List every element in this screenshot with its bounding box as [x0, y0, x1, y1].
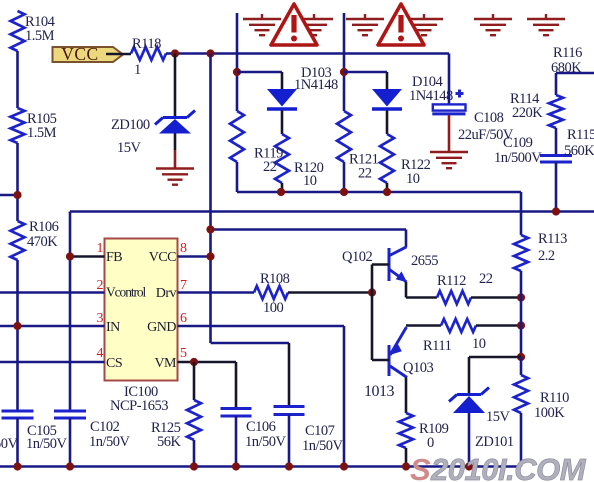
junction rail A R122: [383, 188, 391, 196]
junction branch2 top: [340, 68, 348, 76]
wire FB column: [69, 212, 72, 411]
wire C109 to rail B: [555, 162, 558, 212]
junction base rail: [368, 288, 376, 296]
wire base rail vertical: [371, 265, 374, 361]
junction ground rail C106: [232, 462, 240, 470]
svg-text:10: 10: [472, 336, 486, 352]
svg-text:22: 22: [479, 271, 493, 287]
svg-text:R110: R110: [540, 390, 569, 406]
resistor R122: [380, 134, 394, 183]
junction ground rail C105: [13, 462, 21, 470]
wire R113 bottom lead: [520, 271, 523, 298]
wire ZD100 cathode: [174, 54, 177, 118]
wire node chain: [520, 298, 523, 358]
junction collector rail at VCC column: [206, 225, 214, 233]
diode D104: [372, 89, 402, 109]
svg-text:2.2: 2.2: [538, 248, 555, 264]
wire D104 anode lead: [386, 72, 389, 89]
junction R111 node: [517, 321, 525, 329]
wire R111 left lead: [406, 324, 441, 327]
svg-text:1013: 1013: [364, 383, 395, 400]
wire rail A corner down: [520, 192, 523, 235]
svg-text:56K: 56K: [157, 434, 182, 450]
wire Q102 collector drop: [405, 230, 408, 248]
wire emitter to R112: [406, 296, 437, 299]
capacitor C102: [54, 411, 86, 418]
wire D103 anode lead: [281, 72, 284, 89]
wire C102 to ground rail: [69, 418, 72, 467]
wire D103 to R120: [281, 111, 284, 135]
wire C107 top lead: [288, 343, 291, 407]
resistor R112: [437, 291, 471, 304]
wire Q102 emitter drop: [405, 282, 408, 298]
zener diode ZD100: [155, 111, 195, 134]
svg-text:R116: R116: [553, 45, 582, 61]
capacitor C105: [2, 411, 34, 418]
svg-text:C102: C102: [90, 419, 120, 435]
junction rail A R120: [277, 188, 285, 196]
wire pin7 Drv lead: [178, 291, 255, 294]
wire ZD101 cathode: [468, 357, 471, 395]
svg-text:100K: 100K: [534, 405, 565, 421]
junction FB column: [66, 252, 74, 260]
junction ground rail R125: [190, 462, 198, 470]
ground symbol top 3: [346, 14, 384, 35]
wire VCC column to C107: [211, 342, 290, 345]
wire branch2 left top: [343, 13, 346, 111]
wire VCC rail corner down to C108: [448, 54, 451, 105]
junction left column: [13, 191, 21, 199]
capacitor C106: [221, 409, 252, 417]
svg-text:4: 4: [97, 346, 104, 361]
svg-text:1n/50V: 1n/50V: [89, 434, 131, 450]
wire bottom ground rail: [0, 465, 521, 468]
resistor R119: [230, 111, 244, 162]
wire pin5 VM lead: [178, 361, 237, 364]
junction IN at left column: [13, 322, 21, 330]
wire pin1 FB stub: [70, 255, 105, 258]
wire Q103 base stub: [372, 359, 389, 362]
svg-text:ZD101: ZD101: [475, 434, 514, 450]
svg-text:C109: C109: [503, 135, 533, 151]
ground symbol under C108: [430, 152, 468, 168]
svg-text:R115: R115: [567, 127, 594, 143]
capacitor C109: [540, 156, 572, 163]
wire GND drop: [343, 326, 346, 467]
svg-text:FB: FB: [106, 250, 122, 265]
wire node to ZD101: [469, 356, 521, 359]
junction ZD100 top: [171, 49, 179, 57]
svg-text:CS: CS: [106, 356, 122, 371]
wire R110 top lead: [520, 357, 523, 375]
wire branch1 top: [237, 71, 282, 74]
svg-text:1.5M: 1.5M: [27, 125, 57, 141]
junction branch1 top: [233, 68, 241, 76]
wire left column upper: [16, 51, 19, 108]
ground symbol top 6: [527, 14, 565, 35]
resistor R109: [399, 413, 413, 448]
ground symbol top 4: [405, 14, 443, 35]
svg-text:1N4148: 1N4148: [294, 77, 338, 93]
wire R116 feed: [556, 72, 594, 75]
wire R119 bottom lead: [236, 162, 239, 192]
resistor R104: [11, 11, 25, 51]
svg-text:R106: R106: [29, 219, 59, 235]
transistor Q102: [389, 247, 407, 282]
wire C105 to ground rail: [16, 418, 19, 467]
resistor R113: [514, 235, 528, 271]
junction ground rail GND drop: [340, 462, 348, 470]
junction ground rail C102: [66, 462, 74, 470]
wire R111 to node: [476, 324, 521, 327]
junction ZD101 node: [517, 353, 525, 361]
svg-text:VCC: VCC: [149, 250, 176, 265]
wire VCC rail top: [166, 52, 449, 55]
wire R122 bottom lead: [386, 183, 389, 192]
svg-text:VCC: VCC: [61, 44, 98, 64]
svg-text:IN: IN: [106, 320, 120, 335]
resistor R118: [131, 47, 166, 60]
transistor Q103: [389, 327, 407, 378]
svg-text:C108: C108: [474, 110, 504, 126]
resistor R121: [337, 111, 351, 162]
wire pin6 GND lead: [178, 325, 345, 328]
junction VCC column pin8: [206, 252, 214, 260]
capacitor C108 electrolytic: [432, 104, 465, 114]
wire pin2 Vcontrol net: [0, 291, 105, 294]
resistor R105: [11, 108, 25, 143]
svg-text:R109: R109: [419, 421, 449, 437]
svg-text:1: 1: [97, 241, 104, 256]
svg-text:R111: R111: [423, 338, 452, 354]
ground symbol top 5: [474, 14, 512, 35]
svg-text:3: 3: [97, 311, 104, 326]
svg-text:22: 22: [358, 166, 372, 182]
wire left column mid: [16, 143, 19, 221]
svg-text:C106: C106: [246, 419, 276, 435]
svg-text:10: 10: [303, 173, 317, 189]
wire rail A branch bottoms: [237, 191, 521, 194]
wire R120 bottom lead: [281, 183, 284, 192]
svg-text:Q102: Q102: [342, 249, 372, 265]
warning triangle 1: [271, 4, 317, 45]
wire R114 top lead: [555, 73, 558, 95]
junction VCC column top: [206, 49, 214, 57]
resistor R125: [187, 400, 201, 440]
plus sign of C108: [456, 90, 464, 98]
svg-text:470K: 470K: [27, 234, 58, 250]
ground symbol top 1: [243, 14, 281, 35]
svg-text:Q103: Q103: [403, 360, 433, 376]
zener diode ZD101: [449, 388, 489, 414]
svg-text:1n/50V: 1n/50V: [0, 436, 19, 452]
svg-text:1n/50V: 1n/50V: [26, 436, 68, 452]
junction R112 node: [517, 293, 525, 301]
svg-text:NCP-1653: NCP-1653: [110, 398, 168, 414]
svg-text:0: 0: [427, 435, 434, 451]
svg-text:1: 1: [134, 62, 141, 78]
wire R125 to ground rail: [193, 440, 196, 467]
wire pin4 CS net: [0, 361, 105, 364]
wire pin3 IN net: [0, 325, 105, 328]
svg-text:220K: 220K: [512, 105, 543, 121]
svg-text:100: 100: [263, 300, 284, 316]
junction VM R125: [190, 358, 198, 366]
svg-text:1.5M: 1.5M: [25, 28, 55, 44]
wire R112 to node: [471, 296, 521, 299]
svg-text:8: 8: [180, 241, 187, 256]
wire ZD100 anode to ground: [174, 150, 177, 169]
wire collector rail: [211, 228, 407, 231]
svg-text:VM: VM: [154, 356, 177, 371]
resistor R106: [11, 221, 25, 260]
svg-text:C107: C107: [305, 423, 335, 439]
resistor R111: [441, 319, 476, 332]
wire VCC column: [209, 54, 212, 344]
svg-text:Vcontrol: Vcontrol: [106, 285, 147, 300]
wire R114 to C109: [555, 128, 558, 156]
wire C106 top lead: [235, 362, 238, 409]
wire branch1 left top: [236, 13, 239, 111]
wire C106 to ground rail: [235, 416, 238, 467]
wire Q103 collector drop: [405, 378, 408, 414]
watermark logo: [410, 452, 587, 482]
junction ground rail C107: [285, 462, 293, 470]
svg-text:7: 7: [180, 278, 187, 293]
wire branch2 top: [344, 71, 387, 74]
svg-text:2010I.COM: 2010I.COM: [430, 452, 587, 482]
wire left column lower: [16, 260, 19, 411]
svg-text:22: 22: [263, 159, 277, 175]
svg-text:2: 2: [97, 278, 104, 293]
svg-text:R112: R112: [437, 273, 466, 289]
wire ZD101 anode to ground rail: [468, 413, 471, 467]
wire R110 to ground rail: [520, 413, 523, 467]
op-amp IC U1 IC100 NCP-1653 body: [105, 239, 178, 381]
wire Q102 base stub: [372, 263, 389, 266]
wire R121 bottom lead: [343, 162, 346, 192]
svg-text:Drv: Drv: [156, 286, 177, 301]
resistor R110: [514, 375, 528, 413]
capacitor C107: [274, 407, 305, 415]
junction rail A R121: [340, 188, 348, 196]
wire C107 to ground rail: [288, 415, 291, 467]
wire R125 top lead: [193, 362, 196, 400]
svg-text:5: 5: [180, 346, 187, 361]
ground symbol under ZD100: [156, 169, 194, 185]
svg-text:ZD100: ZD100: [111, 117, 150, 133]
warning triangle 2: [378, 4, 424, 45]
svg-text:560K: 560K: [564, 143, 594, 159]
svg-text:R113: R113: [538, 231, 567, 247]
svg-text:1n/50V: 1n/50V: [302, 438, 344, 454]
ground symbol top 2: [295, 14, 333, 35]
svg-text:2655: 2655: [411, 253, 438, 269]
svg-text:15V: 15V: [486, 409, 511, 425]
svg-text:R108: R108: [260, 271, 290, 287]
resistor R120: [275, 134, 289, 183]
resistor R108: [254, 286, 288, 299]
junction ground rail R109: [402, 462, 410, 470]
wire stub to node left: [0, 194, 18, 197]
wire pin8 VCC stub: [178, 255, 211, 258]
wire rail B left corner down: [69, 212, 72, 214]
wire C108 to ground: [448, 115, 451, 152]
svg-text:6: 6: [180, 311, 187, 326]
wire R109 to ground rail: [405, 448, 408, 467]
wire D104 to R122: [386, 111, 389, 135]
wire ZD100 anode lead: [174, 134, 177, 151]
svg-text:S: S: [410, 452, 431, 482]
svg-text:10: 10: [406, 171, 420, 187]
wire rail B long horizontal: [70, 210, 594, 213]
resistor R114: [549, 95, 563, 128]
svg-text:15V: 15V: [117, 140, 142, 156]
wire R108 to base rail: [288, 291, 372, 294]
svg-text:R118: R118: [132, 36, 161, 52]
wire VCC flag to R118: [106, 53, 131, 56]
diode D103: [267, 89, 297, 109]
svg-text:GND: GND: [147, 320, 176, 335]
svg-text:1N4148: 1N4148: [409, 88, 453, 104]
VCC power flag: [53, 44, 124, 64]
svg-text:1n/50V: 1n/50V: [245, 434, 287, 450]
svg-text:1n/500V: 1n/500V: [494, 150, 542, 166]
junction rail B C109: [552, 207, 560, 215]
junction ground rail ZD101: [465, 462, 473, 470]
